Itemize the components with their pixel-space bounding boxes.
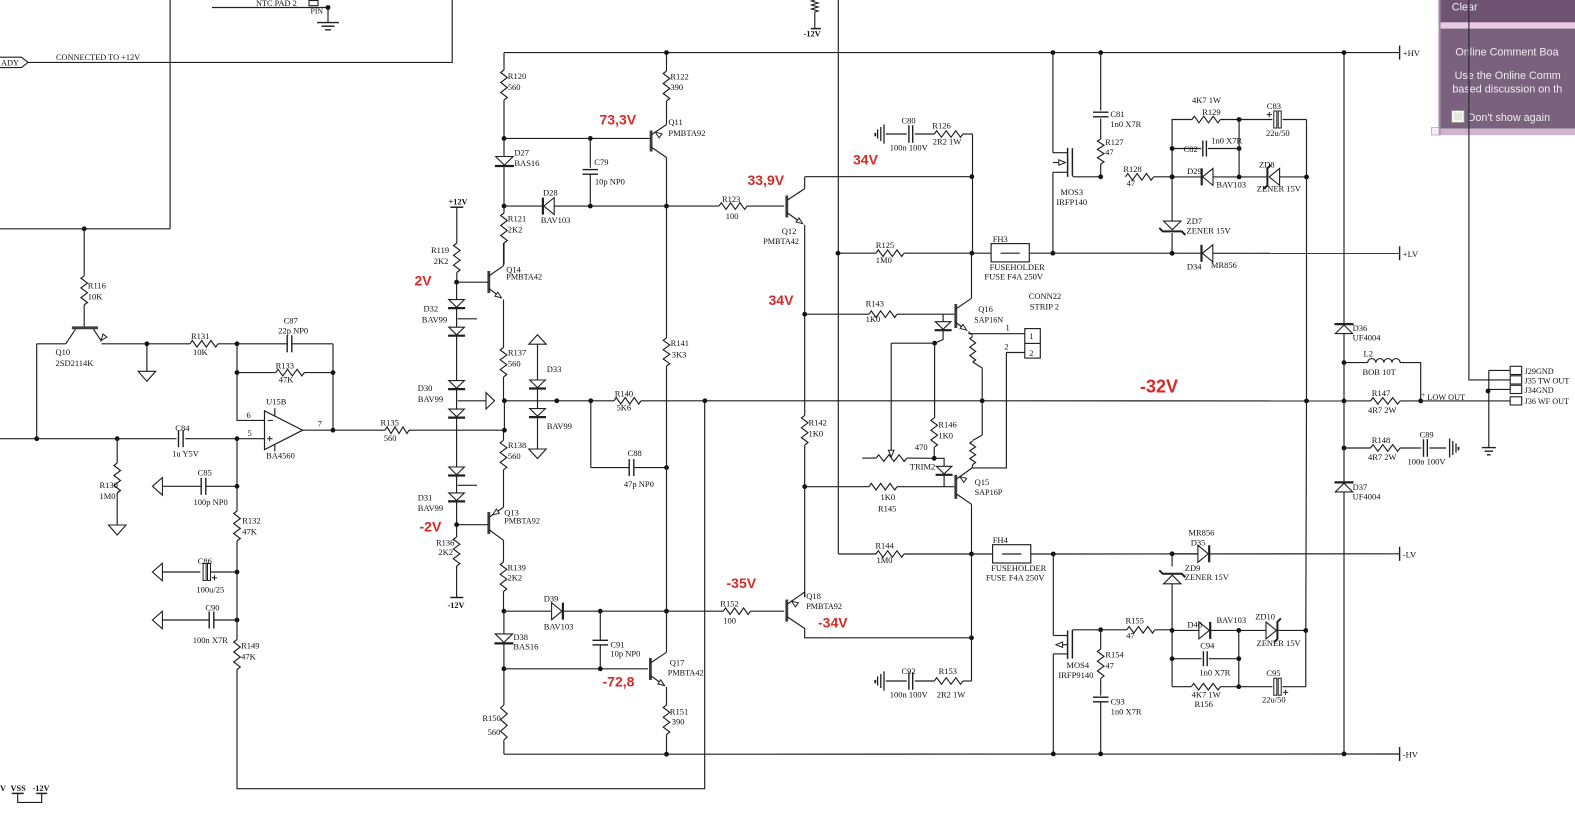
svg-text:-32V: -32V bbox=[1140, 377, 1178, 397]
power VSS bbox=[11, 784, 27, 793]
svg-text:R125: R125 bbox=[876, 240, 894, 250]
node R148 tap bbox=[1342, 446, 1347, 451]
svg-text:Q15: Q15 bbox=[975, 477, 990, 487]
node R116 top bbox=[82, 226, 87, 231]
svg-text:J29GND: J29GND bbox=[1525, 367, 1554, 376]
svg-text:10p NP0: 10p NP0 bbox=[610, 649, 640, 659]
svg-text:-12V: -12V bbox=[448, 601, 465, 610]
svg-text:R120: R120 bbox=[508, 71, 526, 81]
svg-text:UF4004: UF4004 bbox=[1353, 333, 1382, 343]
svg-text:1: 1 bbox=[1029, 331, 1033, 341]
svg-text:R146: R146 bbox=[938, 420, 956, 430]
svg-text:MR856: MR856 bbox=[1188, 528, 1214, 538]
svg-text:1K0: 1K0 bbox=[881, 492, 896, 502]
power rail +HV top bbox=[504, 52, 1399, 54]
svg-text:IRFP9140: IRFP9140 bbox=[1058, 670, 1093, 680]
capacitor C81 bbox=[1093, 53, 1142, 139]
svg-text:Q17: Q17 bbox=[670, 657, 685, 667]
svg-text:560: 560 bbox=[508, 359, 521, 369]
svg-text:FUSE F4A 250V: FUSE F4A 250V bbox=[986, 573, 1045, 583]
svg-text:R143: R143 bbox=[866, 298, 884, 308]
resistor R151 bbox=[663, 705, 688, 754]
node R120 bottom bbox=[502, 136, 507, 141]
capacitor C87 bbox=[237, 316, 333, 353]
wire R141 down bbox=[666, 468, 668, 612]
zener ZD8 bbox=[1239, 160, 1306, 194]
wire rail to J36 bbox=[1421, 400, 1511, 402]
svg-text:47K: 47K bbox=[279, 375, 295, 385]
svg-text:1n0 X7R: 1n0 X7R bbox=[1211, 135, 1242, 145]
capacitor C89 bbox=[1408, 429, 1460, 466]
svg-text:100p NP0: 100p NP0 bbox=[194, 497, 228, 507]
node driver top bbox=[970, 174, 975, 179]
diode D32 bbox=[422, 282, 477, 380]
svg-text:R154: R154 bbox=[1105, 650, 1124, 660]
diode Q15 bias bbox=[934, 458, 952, 486]
wire ZD10 bus right bbox=[1305, 630, 1307, 686]
fuse FH3 bbox=[972, 234, 1053, 282]
svg-text:+12V: +12V bbox=[449, 197, 468, 206]
svg-text:R123: R123 bbox=[722, 194, 740, 204]
svg-text:1u Y5V: 1u Y5V bbox=[172, 449, 200, 459]
resistor R153 bbox=[934, 666, 971, 700]
svg-text:R122: R122 bbox=[670, 71, 688, 81]
svg-text:47: 47 bbox=[1105, 147, 1114, 157]
diode D29 bbox=[1172, 166, 1246, 189]
svg-text:C95: C95 bbox=[1266, 668, 1280, 678]
wire clamp top bus long bbox=[1306, 177, 1308, 401]
ground NTC bbox=[317, 8, 339, 30]
svg-text:Q12: Q12 bbox=[782, 226, 797, 236]
ground R130 bbox=[109, 525, 127, 535]
resistor R146 bbox=[931, 343, 957, 458]
node R133 right bbox=[331, 370, 336, 375]
wire left frame vertical bbox=[0, 0, 170, 229]
node ZD7 bottom bbox=[1170, 251, 1175, 256]
diode D31 bbox=[418, 467, 477, 525]
svg-text:C85: C85 bbox=[198, 467, 212, 477]
node pin5 tap bbox=[235, 436, 240, 441]
svg-text:PIN: PIN bbox=[311, 7, 324, 16]
wire Q17 collector bbox=[666, 611, 668, 651]
svg-text:CONN22: CONN22 bbox=[1029, 291, 1062, 301]
power rail -LV bbox=[1053, 553, 1399, 555]
svg-text:C93: C93 bbox=[1111, 697, 1125, 707]
svg-text:BAS16: BAS16 bbox=[513, 641, 538, 651]
svg-text:-LV: -LV bbox=[1403, 549, 1417, 559]
diode D40 bbox=[1172, 615, 1246, 639]
connector J29 bbox=[1489, 366, 1554, 376]
svg-text:L2: L2 bbox=[1364, 349, 1373, 359]
svg-text:1K0: 1K0 bbox=[938, 431, 953, 441]
svg-text:R151: R151 bbox=[670, 707, 688, 717]
wire D39 to Q17col bbox=[600, 610, 666, 612]
svg-text:5K6: 5K6 bbox=[617, 402, 632, 412]
diode D33 bbox=[529, 335, 572, 459]
svg-text:Q16: Q16 bbox=[978, 304, 993, 314]
svg-text:R128: R128 bbox=[1123, 164, 1141, 174]
svg-text:1K0: 1K0 bbox=[866, 314, 881, 324]
node ZD10 right bbox=[1303, 628, 1308, 633]
svg-text:R129: R129 bbox=[1202, 107, 1220, 117]
svg-text:47: 47 bbox=[1126, 631, 1135, 641]
node gnd drop bbox=[1486, 389, 1491, 394]
diode D28 bbox=[541, 187, 667, 224]
wire gnd drop bbox=[1488, 370, 1490, 447]
svg-text:FH4: FH4 bbox=[993, 535, 1009, 545]
node bias top bbox=[932, 341, 937, 346]
svg-text:R139: R139 bbox=[508, 562, 526, 572]
svg-text:MOS4: MOS4 bbox=[1066, 660, 1089, 670]
node R145 left bbox=[802, 484, 807, 489]
resistor R140 bbox=[614, 389, 641, 413]
svg-text:R150: R150 bbox=[482, 713, 500, 723]
svg-text:D35: D35 bbox=[1191, 537, 1206, 547]
svg-text:ZENER 15V: ZENER 15V bbox=[1257, 184, 1302, 194]
resistor R152 bbox=[667, 598, 785, 625]
svg-text:1n0 X7R: 1n0 X7R bbox=[1110, 119, 1141, 129]
svg-text:BAV99: BAV99 bbox=[418, 503, 443, 513]
svg-text:VSS: VSS bbox=[11, 784, 27, 793]
svg-text:PMBTA42: PMBTA42 bbox=[506, 272, 542, 281]
svg-text:-HV: -HV bbox=[1403, 750, 1419, 760]
popup text dont show bbox=[1468, 112, 1551, 124]
node clamp bus rail bbox=[1304, 399, 1309, 404]
wire R153 riser bbox=[971, 554, 973, 681]
svg-text:22p NP0: 22p NP0 bbox=[278, 326, 308, 336]
capacitor C84 bbox=[172, 423, 264, 459]
svg-text:-12V: -12V bbox=[33, 784, 50, 793]
transistor Q10 bbox=[37, 328, 147, 368]
resistor R127 bbox=[1097, 137, 1123, 177]
wire HV catch bus bbox=[1343, 53, 1345, 324]
wire D30 tap arrow bbox=[458, 393, 495, 410]
svg-text:SAP16N: SAP16N bbox=[974, 315, 1003, 324]
capacitor C93 bbox=[1093, 697, 1142, 754]
svg-text:BAV99: BAV99 bbox=[422, 314, 447, 324]
svg-text:-12V: -12V bbox=[804, 30, 821, 39]
svg-text:R148: R148 bbox=[1372, 435, 1390, 445]
node mid rail a bbox=[554, 398, 559, 403]
diode D27 bbox=[495, 138, 540, 206]
svg-text:BAV103: BAV103 bbox=[1217, 615, 1247, 625]
svg-text:Don't show again: Don't show again bbox=[1468, 112, 1551, 124]
svg-text:-34V: -34V bbox=[818, 615, 848, 631]
svg-text:100n 100V: 100n 100V bbox=[890, 143, 929, 153]
diode D35 bbox=[1172, 528, 1214, 563]
wire clamp bus to ZD10 bbox=[1305, 401, 1308, 631]
resistor R143 bbox=[805, 298, 955, 324]
svg-text:+: + bbox=[1421, 390, 1425, 399]
svg-text:BOB 10T: BOB 10T bbox=[1363, 367, 1397, 377]
svg-text:C89: C89 bbox=[1420, 429, 1434, 439]
svg-text:-35V: -35V bbox=[727, 575, 757, 591]
wire D36 seg2 bbox=[1343, 401, 1345, 448]
svg-text:ZENER 15V: ZENER 15V bbox=[1187, 225, 1232, 235]
svg-text:+HV: +HV bbox=[1403, 48, 1421, 58]
svg-text:100: 100 bbox=[726, 211, 739, 221]
wire VSS to -12V bbox=[18, 793, 42, 802]
wire mid column bbox=[503, 401, 505, 430]
svg-text:R155: R155 bbox=[1126, 616, 1144, 626]
svg-text:1n0 X7R: 1n0 X7R bbox=[1111, 706, 1142, 716]
svg-text:R116: R116 bbox=[88, 281, 106, 291]
resistor R144 bbox=[838, 540, 971, 565]
svg-text:MR856: MR856 bbox=[1211, 260, 1237, 270]
svg-text:PMBTA92: PMBTA92 bbox=[668, 128, 705, 138]
resistor R124 partial bbox=[812, 0, 819, 29]
node D39 left bbox=[502, 609, 507, 614]
wire mid rail bbox=[504, 400, 705, 402]
wire output rail segment bbox=[1343, 363, 1345, 401]
svg-text:470: 470 bbox=[915, 442, 928, 452]
svg-text:BAS16: BAS16 bbox=[514, 158, 539, 168]
resistor R135 bbox=[333, 418, 504, 443]
node Q10 base input bbox=[34, 436, 39, 441]
svg-text:D29: D29 bbox=[1187, 166, 1202, 176]
label LOW OUT bbox=[1421, 390, 1465, 402]
svg-text:390: 390 bbox=[672, 716, 685, 726]
node R129 right bbox=[1237, 117, 1242, 122]
svg-text:-72,8: -72,8 bbox=[603, 674, 635, 690]
popup panel body bbox=[1432, 0, 1575, 135]
svg-text:1: 1 bbox=[1006, 323, 1010, 333]
svg-text:R132: R132 bbox=[242, 515, 260, 525]
svg-text:4K7 1W: 4K7 1W bbox=[1192, 95, 1221, 105]
svg-text:+LV: +LV bbox=[1403, 249, 1419, 259]
svg-text:D36: D36 bbox=[1353, 323, 1368, 333]
red annotation 34V lower bbox=[769, 292, 795, 308]
svg-text:2: 2 bbox=[1029, 348, 1033, 358]
zener ZD7 bbox=[1159, 177, 1231, 253]
svg-text:CONNECTED TO +12V: CONNECTED TO +12V bbox=[56, 53, 140, 62]
node C81 top bbox=[1098, 50, 1103, 55]
node FH3 right bbox=[1051, 251, 1056, 256]
svg-text:BA4560: BA4560 bbox=[266, 450, 295, 460]
resistor R121 bbox=[501, 206, 527, 264]
svg-text:PMBTA92: PMBTA92 bbox=[806, 602, 842, 611]
terminal +LV bbox=[1400, 246, 1419, 260]
node D29 right bbox=[1237, 175, 1242, 180]
node R133 left bbox=[235, 370, 240, 375]
capacitor C86 bbox=[152, 556, 237, 595]
node LOW OUT bbox=[1418, 399, 1423, 404]
svg-text:4R7 2W: 4R7 2W bbox=[1368, 405, 1397, 415]
capacitor C88 bbox=[591, 401, 667, 489]
capacitor C85 bbox=[152, 467, 237, 507]
wire wiper up bbox=[891, 343, 934, 450]
resistor R142 bbox=[801, 401, 827, 487]
svg-text:R156: R156 bbox=[1195, 699, 1213, 709]
svg-text:47K: 47K bbox=[242, 526, 258, 536]
resistor R126 bbox=[932, 121, 972, 177]
transistor Q13 bbox=[457, 506, 540, 563]
svg-text:Use the Online Comm: Use the Online Comm bbox=[1455, 70, 1561, 82]
node MOS4 bottom bbox=[1051, 752, 1056, 757]
svg-text:C82: C82 bbox=[1184, 144, 1198, 154]
svg-text:U15B: U15B bbox=[266, 397, 287, 407]
power label partial bbox=[0, 784, 6, 793]
resistor R120 bbox=[501, 53, 527, 139]
svg-text:1M0: 1M0 bbox=[100, 491, 116, 501]
svg-text:22u/50: 22u/50 bbox=[1262, 695, 1286, 705]
wire clamp mid bus bbox=[1238, 120, 1240, 177]
node R127 bottom bbox=[1098, 174, 1103, 179]
svg-text:2K2: 2K2 bbox=[508, 572, 523, 582]
node D40 right bbox=[1236, 628, 1241, 633]
power rail -HV bottom bbox=[504, 753, 1399, 755]
svg-text:100n 100V: 100n 100V bbox=[890, 690, 929, 700]
node C91 top bbox=[598, 609, 603, 614]
diode D30 bbox=[418, 381, 465, 467]
node out rail D36 bbox=[1342, 399, 1347, 404]
resistor R129 bbox=[1172, 95, 1239, 177]
resistor R154 bbox=[1097, 630, 1124, 696]
svg-text:34V: 34V bbox=[769, 292, 795, 308]
svg-text:NTC PAD 2: NTC PAD 2 bbox=[256, 0, 297, 8]
node R125 left bbox=[836, 251, 841, 256]
inductor L2 bbox=[1344, 349, 1421, 401]
resistor R137 bbox=[500, 348, 526, 401]
svg-text:D31: D31 bbox=[418, 492, 433, 502]
svg-text:Q18: Q18 bbox=[806, 591, 821, 601]
svg-text:R138: R138 bbox=[508, 440, 526, 450]
svg-text:TRIM2: TRIM2 bbox=[910, 461, 936, 471]
wire pin5 down bbox=[236, 439, 238, 487]
resistor R155 bbox=[1101, 616, 1172, 641]
svg-text:D33: D33 bbox=[547, 364, 562, 374]
node Q11 collector bbox=[664, 204, 669, 209]
node R151 bottom bbox=[664, 752, 669, 757]
svg-text:560: 560 bbox=[384, 433, 397, 443]
popup text title bbox=[1455, 47, 1558, 59]
svg-text:C90: C90 bbox=[205, 603, 219, 613]
node Q18 collector right bbox=[969, 635, 974, 640]
node C90 tap bbox=[235, 618, 240, 623]
node FH4 right bbox=[1051, 552, 1056, 557]
svg-text:1K0: 1K0 bbox=[809, 428, 824, 438]
capacitor C79 bbox=[583, 138, 625, 206]
svg-text:R121: R121 bbox=[508, 214, 526, 224]
resistor R131 bbox=[147, 331, 237, 357]
diode D34 bbox=[1187, 245, 1237, 271]
transistor MOS4 bbox=[1053, 554, 1100, 754]
resistor R128 bbox=[1123, 164, 1172, 188]
zener ZD10 bbox=[1239, 612, 1306, 648]
diode D36 bbox=[1335, 323, 1382, 363]
diode D37 bbox=[1335, 482, 1382, 754]
svg-text:BAV103: BAV103 bbox=[1216, 179, 1246, 189]
terminal -HV bbox=[1400, 747, 1419, 761]
resistor R150 bbox=[482, 669, 507, 754]
power -12V bottom left bbox=[33, 784, 50, 793]
node C91 bottom bbox=[598, 666, 603, 671]
node R154 top bbox=[1098, 627, 1103, 632]
svg-text:2R2 1W: 2R2 1W bbox=[937, 690, 966, 700]
node R156 right bbox=[1236, 684, 1241, 689]
label pin 7 bbox=[318, 418, 322, 428]
resistor R156 bbox=[1172, 683, 1239, 709]
svg-text:Online Comment Boa: Online Comment Boa bbox=[1455, 47, 1558, 59]
diode D38 bbox=[494, 611, 538, 669]
svg-text:R145: R145 bbox=[878, 504, 896, 514]
svg-text:R135: R135 bbox=[381, 418, 399, 428]
svg-text:33,9V: 33,9V bbox=[748, 172, 785, 188]
wire Q16 pin1 bbox=[968, 323, 1025, 334]
popup text body1 bbox=[1455, 70, 1561, 82]
svg-text:ZENER 15V: ZENER 15V bbox=[1257, 638, 1302, 648]
node R135 right bbox=[502, 428, 507, 433]
svg-text:47p NP0: 47p NP0 bbox=[624, 479, 654, 489]
resistor Q15 emitter res bbox=[970, 401, 982, 468]
wire inverting input bbox=[237, 373, 265, 421]
node R144 right bbox=[969, 552, 974, 557]
node Q10 emitter bbox=[145, 341, 150, 346]
capacitor C80 bbox=[874, 115, 934, 152]
red annotation -34V bbox=[818, 615, 848, 631]
resistor R136 bbox=[436, 525, 460, 598]
node C86 tap bbox=[235, 570, 240, 575]
svg-text:C94: C94 bbox=[1200, 641, 1215, 651]
wire boost node down bbox=[972, 177, 974, 254]
svg-text:BAV103: BAV103 bbox=[541, 215, 571, 225]
wire C86 seg bbox=[236, 572, 238, 620]
wire -32V rail bbox=[705, 400, 1344, 402]
svg-text:R136: R136 bbox=[436, 538, 454, 548]
node C79 top bbox=[588, 136, 593, 141]
node R122 top bbox=[664, 50, 669, 55]
node C82 left bbox=[1170, 146, 1175, 151]
node mid rail left bbox=[502, 398, 507, 403]
resistor R141 bbox=[663, 206, 689, 468]
node output bbox=[331, 428, 336, 433]
net flag READY bbox=[0, 57, 28, 67]
node D29 left bbox=[1170, 175, 1175, 180]
connector J36 bbox=[1510, 397, 1569, 406]
svg-text:V: V bbox=[0, 784, 6, 793]
svg-text:7: 7 bbox=[318, 418, 322, 428]
svg-text:PMBTA42: PMBTA42 bbox=[763, 237, 799, 246]
resistor R145 bbox=[805, 483, 955, 513]
svg-text:R152: R152 bbox=[720, 598, 738, 608]
node D37 bottom bbox=[1342, 752, 1347, 757]
capacitor C83 bbox=[1239, 101, 1306, 138]
svg-text:D39: D39 bbox=[544, 594, 559, 604]
svg-text:R141: R141 bbox=[671, 338, 689, 348]
wire opamp output bbox=[303, 429, 333, 431]
svg-text:R126: R126 bbox=[932, 121, 950, 131]
svg-text:34V: 34V bbox=[853, 152, 879, 168]
label NTC PAD 2 bbox=[256, 0, 297, 8]
transistor Q12 bbox=[763, 177, 805, 315]
node HV catch top bbox=[1342, 50, 1347, 55]
connector PIN bbox=[309, 1, 323, 16]
red annotation 33,9V bbox=[748, 172, 785, 188]
capacitor C90 bbox=[152, 603, 237, 646]
terminal -LV bbox=[1400, 547, 1417, 561]
terminal +HV bbox=[1400, 46, 1421, 60]
red annotation -32V bbox=[1140, 377, 1178, 397]
svg-text:MOS3: MOS3 bbox=[1060, 187, 1083, 197]
svg-text:2K2: 2K2 bbox=[508, 225, 523, 235]
svg-text:R140: R140 bbox=[615, 389, 633, 399]
wire CONN22 pin2 bbox=[972, 341, 1025, 468]
resistor R139 bbox=[500, 562, 526, 611]
svg-text:100: 100 bbox=[723, 616, 736, 626]
svg-text:R137: R137 bbox=[508, 348, 526, 358]
svg-text:C88: C88 bbox=[628, 448, 642, 458]
svg-text:D27: D27 bbox=[514, 148, 529, 158]
